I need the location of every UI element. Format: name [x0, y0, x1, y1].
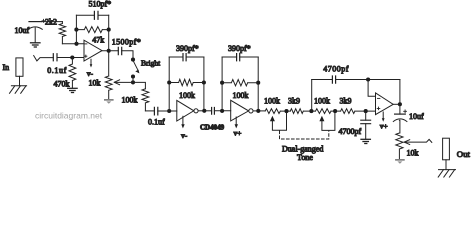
jack J2 Out — [443, 138, 450, 160]
junction dots stage3 feedback — [220, 81, 224, 85]
v+ supply arrow U1c — [235, 117, 238, 128]
capacitor C10 4700pf bottom — [361, 111, 371, 139]
potentiometer VR2 100k tone — [265, 109, 290, 114]
v+ supply arrow U1d — [382, 112, 385, 122]
v- supply arrow U1b — [181, 116, 184, 128]
jack J1 In — [16, 58, 23, 76]
ground under 4700pf — [361, 139, 370, 143]
wire right feedback vertical — [108, 15, 110, 76]
wire feedback to inverting input — [368, 80, 375, 97]
wire U1d output — [393, 103, 400, 105]
svg-text:2k2: 2k2 — [45, 18, 57, 27]
switch SW1 lever arrow — [134, 62, 140, 74]
svg-text:390pf*: 390pf* — [228, 44, 251, 53]
junction dot pot1 right — [284, 109, 288, 113]
svg-text:100k: 100k — [314, 96, 330, 105]
wire node A vertical to feedback — [75, 15, 77, 44]
capacitor C3 0.1uf input — [34, 54, 84, 61]
svg-text:0.1uf: 0.1uf — [148, 118, 165, 127]
ground gray under VR1 — [104, 99, 114, 104]
wire stage2 feedback right vertical — [203, 57, 205, 111]
capacitor C2 510pf feedback — [76, 11, 108, 19]
op-amp U1a first stage — [84, 40, 102, 61]
junction dot U1a output — [107, 49, 111, 53]
op-amp U1d output stage — [376, 93, 394, 115]
resistor R6 100k stage3 feedback — [222, 80, 258, 86]
inverter U1b stage2 — [177, 100, 198, 121]
wiper arrow VR4 — [404, 139, 432, 144]
svg-text:390pf*: 390pf* — [176, 44, 199, 53]
wire U1c output — [253, 110, 265, 112]
svg-text:100k: 100k — [179, 91, 195, 100]
svg-text:100k: 100k — [122, 96, 138, 105]
capacitor C5 0.1uf coupling — [145, 107, 176, 115]
junction dot rail stage4 input — [364, 109, 368, 113]
svg-text:100k: 100k — [264, 97, 280, 106]
wire U1a output — [102, 50, 118, 52]
ground under 10uf — [31, 43, 41, 47]
chassis ground Out — [438, 170, 455, 178]
resistor R8 3k9 second — [341, 109, 376, 114]
svg-text:v-: v- — [87, 69, 94, 78]
svg-text:circuitdiagram.net: circuitdiagram.net — [35, 111, 103, 121]
svg-text:4700pf: 4700pf — [339, 127, 362, 136]
svg-text:In: In — [3, 63, 10, 72]
capacitor C8 390pf stage3 — [222, 54, 258, 61]
capacitor C6 390pf stage2 — [169, 54, 204, 61]
svg-text:470k: 470k — [54, 80, 70, 89]
svg-text:4700pf: 4700pf — [323, 65, 349, 74]
resistor R2 47k feedback — [76, 27, 108, 33]
potentiometer VR1 10k — [105, 76, 112, 99]
junction dot pot2 right — [333, 109, 337, 113]
svg-text:3k9: 3k9 — [340, 96, 352, 105]
wire tap vertical to 4700pf — [311, 80, 313, 112]
node stage3 input dot — [220, 109, 224, 113]
capacitor C9 4700pf top — [312, 76, 400, 83]
junction dot 47k left — [74, 28, 78, 32]
wire stage3 feedback left vertical — [221, 57, 223, 111]
resistor R7 3k9 first — [290, 109, 315, 114]
svg-text:0.1uf: 0.1uf — [47, 66, 67, 75]
node stage2 input dot — [167, 109, 171, 113]
wire U1b output — [198, 110, 212, 112]
svg-text:10k: 10k — [89, 78, 101, 87]
junction dots stage2 feedback — [167, 80, 171, 84]
svg-text:10uf: 10uf — [15, 26, 30, 35]
svg-text:Tone: Tone — [297, 153, 313, 162]
svg-text:1500pf*: 1500pf* — [112, 38, 141, 47]
junction dot U1c output — [256, 109, 260, 113]
inverter U1c stage3 — [231, 100, 253, 121]
resistor R4 100k bright — [142, 89, 149, 111]
wire 2k2 to node A — [62, 43, 84, 45]
junction dot 47k right — [107, 28, 111, 32]
svg-text:CD4049: CD4049 — [200, 124, 225, 132]
v- supply arrow U1a — [90, 59, 93, 67]
ground under 470k — [68, 88, 77, 92]
wire stage3 feedback right vertical — [257, 57, 259, 111]
wire feedback right vertical to output — [399, 80, 401, 105]
wire In jack to ground — [19, 76, 21, 86]
switch SW1 Bright top contact — [131, 58, 135, 62]
wire switch to 100k bright — [133, 82, 145, 88]
dashed dual-gang linkage — [280, 131, 329, 139]
node A junction dot — [74, 42, 78, 46]
wire 10uf to 2k2 — [42, 21, 63, 23]
svg-text:3k9: 3k9 — [288, 97, 300, 106]
resistor R3 470k — [69, 58, 76, 89]
capacitor C7 interstage — [212, 108, 231, 115]
wire switch contact link — [132, 77, 134, 83]
potentiometer VR4 10k output — [396, 133, 403, 159]
node B junction dot — [70, 55, 74, 59]
switch SW1 contact dots — [131, 74, 135, 78]
junction dot 3k9 right tap — [309, 109, 313, 113]
wiper VR2 arrow and wire — [270, 111, 287, 130]
svg-text:Dual-ganged: Dual-ganged — [282, 144, 323, 153]
svg-text:10k: 10k — [407, 148, 419, 157]
svg-text:100k: 100k — [233, 91, 249, 100]
capacitor C4 1500pf — [118, 47, 133, 57]
svg-text:v-: v- — [181, 131, 188, 140]
junction dot U1d output — [398, 102, 402, 106]
svg-text:v+: v+ — [380, 121, 388, 130]
svg-text:Out: Out — [457, 149, 471, 159]
svg-text:10uf: 10uf — [409, 112, 424, 121]
svg-text:47k: 47k — [92, 35, 104, 44]
chassis ground In — [10, 86, 27, 94]
wire stage2 feedback left vertical — [168, 57, 170, 111]
svg-text:Bright: Bright — [141, 59, 161, 68]
resistor R5 100k stage2 feedback — [169, 79, 204, 85]
wire Out jack to ground — [445, 160, 447, 170]
resistor R1 2k2 — [59, 22, 65, 44]
svg-text:v+: v+ — [234, 129, 242, 138]
capacitor C11 10uf output — [393, 104, 407, 133]
ground gray under VR4 — [395, 159, 405, 164]
capacitor C1 10uf input supply cap — [28, 19, 45, 42]
potentiometer VR3 100k tone second — [316, 109, 341, 114]
svg-text:510pf*: 510pf* — [89, 0, 112, 9]
junction dot U1b output — [202, 109, 206, 113]
wiper arrow VR1 — [114, 80, 133, 85]
junction dot feedback top — [366, 77, 370, 81]
wiper VR3 arrow and wire — [319, 111, 335, 130]
